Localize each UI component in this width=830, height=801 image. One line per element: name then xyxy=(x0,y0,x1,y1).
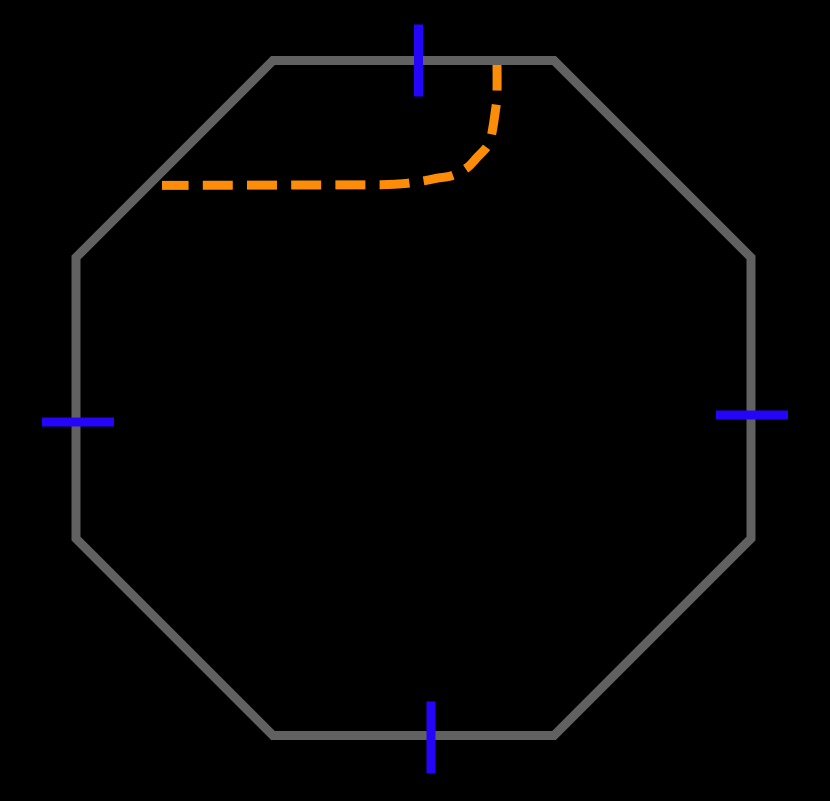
octagon outline xyxy=(76,61,751,736)
tick right xyxy=(716,411,788,420)
tick left xyxy=(42,418,114,427)
orange dashed trajectory xyxy=(162,61,497,186)
tick bottom xyxy=(427,702,436,774)
tick top xyxy=(414,25,423,97)
